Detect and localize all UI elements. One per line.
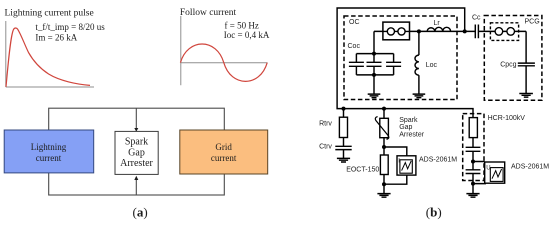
svg-text:U: U	[486, 166, 490, 172]
svg-text:HCR-100kV: HCR-100kV	[488, 115, 526, 122]
svg-text:Lightning: Lightning	[31, 142, 67, 152]
svg-text:Lightning current pulse: Lightning current pulse	[5, 8, 94, 18]
svg-text:Cpcg: Cpcg	[500, 62, 516, 69]
svg-text:Lr: Lr	[434, 20, 441, 27]
svg-text:Grid: Grid	[215, 142, 232, 152]
svg-text:ADS-2061M: ADS-2061M	[511, 164, 549, 171]
svg-text:Ctrv: Ctrv	[319, 143, 332, 150]
svg-text:EOCT-150: EOCT-150	[346, 167, 379, 174]
svg-text:f = 50 Hz: f = 50 Hz	[225, 20, 259, 30]
svg-text:(a): (a)	[133, 204, 148, 219]
svg-text:Im = 26 kA: Im = 26 kA	[35, 32, 77, 42]
svg-text:t_f/t_imp = 8/20 us: t_f/t_imp = 8/20 us	[35, 22, 105, 32]
svg-text:Rtrv: Rtrv	[319, 120, 332, 127]
svg-text:(b): (b)	[426, 204, 442, 219]
svg-text:Cc: Cc	[472, 15, 481, 22]
svg-text:ADS-2061M: ADS-2061M	[419, 157, 457, 164]
svg-text:Arrester: Arrester	[399, 132, 425, 139]
svg-text:Spark: Spark	[125, 137, 148, 148]
svg-text:PCG: PCG	[525, 19, 540, 26]
svg-text:Gap: Gap	[399, 124, 412, 131]
svg-text:Ioc = 0,4 kA: Ioc = 0,4 kA	[224, 30, 270, 40]
svg-text:Coc: Coc	[348, 43, 361, 50]
svg-text:Loc: Loc	[426, 62, 438, 69]
svg-text:OC: OC	[349, 19, 360, 26]
svg-text:current: current	[36, 153, 62, 163]
svg-text:Arrester: Arrester	[120, 158, 153, 169]
svg-text:Follow current: Follow current	[180, 8, 237, 18]
svg-text:Gap: Gap	[128, 147, 145, 158]
svg-text:current: current	[211, 153, 237, 163]
